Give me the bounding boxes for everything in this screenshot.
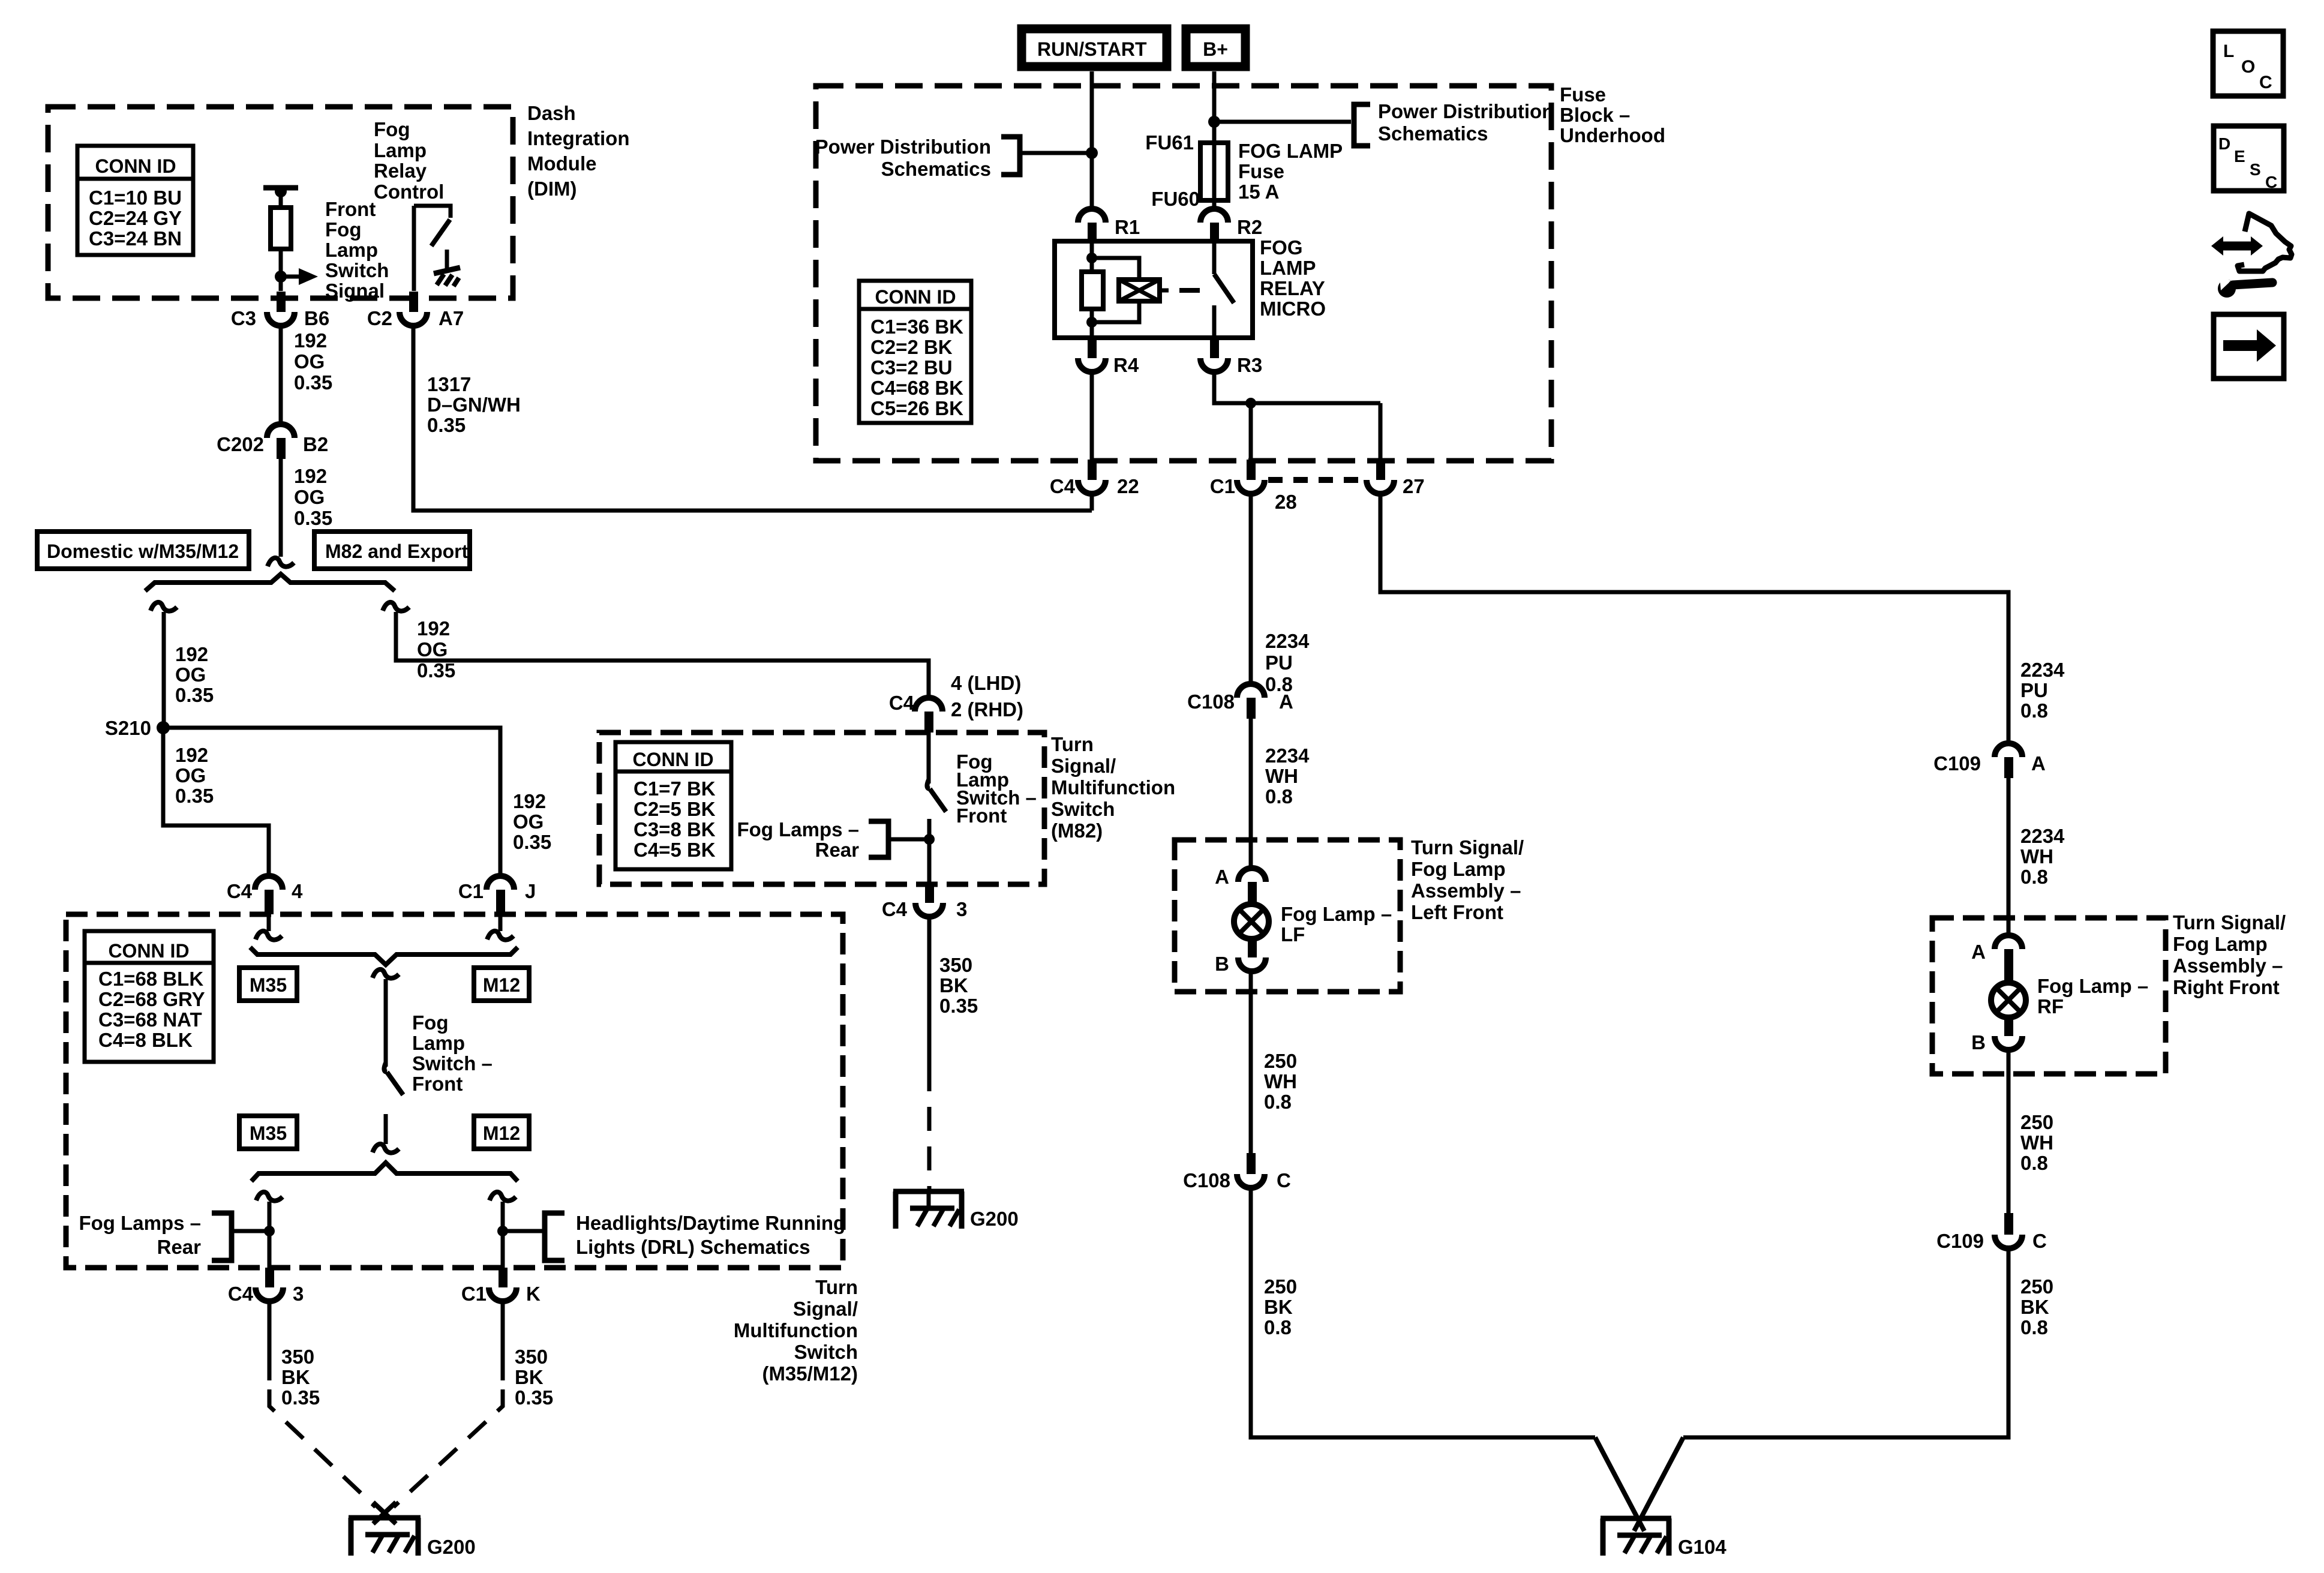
icon forward arrow [2214,314,2284,379]
svg-text:C109: C109 [1933,752,1981,775]
turn signal/multifunction switch (M35/M12) dashed box [66,914,843,1268]
connector pin A (LF lamp) [1215,866,1266,904]
wire 250 BK to G104 (right leg) [1683,1248,2008,1437]
svg-text:OG: OG [175,664,206,686]
svg-text:CONN ID: CONN ID [875,286,956,308]
svg-text:LAMP: LAMP [1260,257,1316,279]
svg-text:250: 250 [1264,1275,1297,1298]
svg-text:BK: BK [939,974,968,996]
svg-text:B+: B+ [1203,38,1228,60]
svg-text:4 (LHD): 4 (LHD) [951,672,1021,694]
fog lamp relay control switch (DIM) [414,206,451,291]
svg-text:2234: 2234 [1265,630,1310,652]
label Fog Lamp Switch - Front (M35) [412,1011,493,1095]
svg-text:Fog: Fog [374,118,410,140]
svg-text:Signal/: Signal/ [1051,755,1116,777]
svg-text:192: 192 [513,790,546,812]
wire tap to Power Distribution (left) [1022,151,1092,155]
svg-text:C3=8 BK: C3=8 BK [633,818,716,840]
connector C4 pin 4(LHD)/2(RHD) [889,672,1023,733]
svg-text:Lamp: Lamp [374,139,427,161]
svg-text:C2=24 GY: C2=24 GY [89,207,182,229]
connector C108 pin C [1183,1153,1291,1191]
connector C1 pin J (M35 input) [458,876,536,914]
wire RUN/START to R1 [1090,71,1094,209]
svg-text:Switch: Switch [794,1341,858,1363]
svg-text:A7: A7 [439,307,464,329]
label 192 OG 0.35 (below S210) [175,744,214,807]
label 192 OG 0.35 (C202) [294,465,332,529]
svg-text:M12: M12 [483,974,520,996]
svg-text:C1: C1 [461,1283,487,1305]
wire hook above distribute brace [373,1144,399,1153]
diode (boxed X) relay suppression [1119,280,1169,301]
wire end hook above option brace [268,558,294,567]
svg-text:C3=68 NAT: C3=68 NAT [98,1008,202,1031]
connector C2 pin A7 [367,292,464,329]
wire 27 loop to right side [1380,494,2008,743]
svg-text:C109: C109 [1936,1230,1984,1252]
svg-text:0.35: 0.35 [515,1386,553,1409]
svg-text:C4: C4 [227,880,253,902]
svg-text:WH: WH [2020,845,2053,867]
DIM dashed box [48,107,513,298]
turn signal/multifunction switch (M82) dashed box [599,733,1044,884]
svg-text:C3=2 BU: C3=2 BU [870,356,953,379]
svg-text:350: 350 [939,954,972,976]
svg-text:Turn: Turn [815,1276,858,1298]
wire 2234 WH to RF lamp [2007,778,2011,935]
mechanical link dash [1179,288,1200,293]
svg-text:Fog Lamps –: Fog Lamps – [737,818,859,840]
svg-text:0.35: 0.35 [175,785,214,807]
wire diagonal left into G104 [1595,1437,1644,1531]
svg-text:Power Distribution: Power Distribution [815,136,991,158]
svg-text:Front: Front [412,1073,463,1095]
wire C1-28 down to C108-A [1249,494,1253,684]
svg-text:M35: M35 [250,974,287,996]
wire diagonal right into G104 [1634,1437,1683,1531]
svg-text:0.8: 0.8 [2020,1152,2048,1174]
svg-text:0.35: 0.35 [175,684,214,706]
svg-text:C4: C4 [889,692,915,714]
wire S210 across to C1-J [163,728,500,876]
svg-text:192: 192 [294,465,327,487]
bulb Fog Lamp LF [1234,904,1269,939]
icon DESC [2214,126,2284,191]
wire 250 WH to C108-C [1249,971,1253,1153]
wire hook below distribute brace right [490,1192,516,1201]
svg-text:C1: C1 [1210,475,1235,497]
svg-text:Lights (DRL) Schematics: Lights (DRL) Schematics [576,1236,810,1258]
label Fog Lamps - Rear (M35) [79,1212,201,1258]
label Turn Signal/Multifunction Switch (M35/M12) [734,1276,858,1385]
svg-text:FU61: FU61 [1145,131,1194,154]
svg-text:C4: C4 [1050,475,1076,497]
svg-text:B: B [1971,1031,1986,1053]
option box M82 and Export [314,532,470,569]
svg-text:B2: B2 [303,433,328,455]
svg-text:15 A: 15 A [1238,181,1279,203]
svg-text:Lamp: Lamp [412,1032,465,1054]
wire diode branch [1092,258,1139,322]
svg-text:S: S [2250,160,2261,179]
label Turn Signal/Multifunction Switch (M82) [1051,733,1175,842]
bracket Fog Lamps - Rear (M35) [212,1213,269,1260]
junction dot on RUN/START feed [1086,147,1098,159]
bracket Fog Lamps - Rear (M82) [869,821,929,857]
label 192 OG 0.35 (B6) [294,329,332,394]
splice S210 [105,717,170,739]
label Headlights/Daytime Running Lights (DRL) Schematics [576,1212,845,1258]
svg-text:0.8: 0.8 [1264,1091,1292,1113]
connector C4 pin 3 (M82) [882,884,968,920]
svg-text:Lamp: Lamp [325,239,378,261]
svg-text:K: K [526,1283,541,1305]
svg-text:Switch: Switch [1051,798,1115,820]
svg-text:Multifunction: Multifunction [1051,776,1175,798]
svg-text:WH: WH [2020,1131,2053,1154]
label Turn Signal/Fog Lamp Assembly - Right Front [2173,911,2286,998]
svg-text:RUN/START: RUN/START [1037,38,1147,60]
connector pin R1 [1078,209,1140,242]
wire 192 OG from C202 [279,459,283,557]
label 2234 PU 0.8 (left) [1265,630,1310,695]
wire hook below merge brace [373,969,399,978]
wire 350 BK to G200 [927,917,932,1067]
svg-text:C2=5 BK: C2=5 BK [633,798,716,820]
svg-text:Rear: Rear [815,839,860,861]
svg-text:Signal: Signal [325,280,385,302]
connector C109 pin A [1933,743,2046,778]
svg-text:0.35: 0.35 [294,371,332,394]
svg-text:27: 27 [1403,475,1425,497]
svg-text:Block –: Block – [1560,104,1630,126]
svg-text:BK: BK [515,1366,544,1388]
arrow front fog lamp switch signal [281,268,318,285]
wire S210 down to C4-4 [163,728,269,876]
connector C4 pin 3 (M35) [228,1268,304,1305]
svg-text:C3: C3 [231,307,256,329]
label Turn Signal/Fog Lamp Assembly - Left Front [1411,836,1524,923]
turn signal/fog lamp assembly right front dashed box [1932,918,2166,1074]
svg-text:2234: 2234 [1265,745,1310,767]
svg-text:Schematics: Schematics [1378,122,1488,145]
option box Domestic w/M35/M12 [37,532,249,569]
svg-text:C1=10 BU: C1=10 BU [89,187,182,209]
svg-text:OG: OG [417,638,448,661]
wire 2234 WH to LF lamp [1249,719,1253,868]
connector C108 pin A [1187,684,1293,719]
svg-text:250: 250 [2020,1111,2053,1133]
svg-text:CONN ID: CONN ID [632,749,713,770]
svg-text:0.35: 0.35 [513,831,551,853]
CONN ID table (M35 switch) [85,931,214,1062]
svg-text:S210: S210 [105,717,151,739]
wire R4 down to C4-22 [1090,372,1094,460]
svg-text:C2: C2 [367,307,392,329]
label Fog Lamps - Rear (M82) [737,818,859,861]
svg-text:2 (RHD): 2 (RHD) [951,698,1023,721]
svg-text:C4=68 BK: C4=68 BK [870,377,963,399]
svg-text:R4: R4 [1113,354,1139,376]
wire right output to C1-K [501,1202,505,1268]
option split brace (top) [145,574,395,591]
connector pin B (LF lamp) [1215,939,1266,975]
wire hook option branch right [383,602,409,611]
svg-text:2234: 2234 [2020,659,2065,681]
bracket Power Distribution right [1354,104,1370,146]
svg-text:M82 and Export: M82 and Export [325,541,469,562]
svg-text:250: 250 [2020,1275,2053,1298]
label 2234 WH 0.8 (right) [2020,825,2065,888]
svg-text:0.35: 0.35 [281,1386,320,1409]
svg-text:LF: LF [1281,923,1305,945]
label 250 BK 0.8 (right) [2020,1275,2053,1338]
svg-text:2234: 2234 [2020,825,2065,847]
junction dot coil top [1086,253,1097,263]
svg-text:E: E [2234,147,2245,166]
svg-text:Fog: Fog [325,218,361,241]
wire hook left above merge brace [256,931,282,940]
label 350 BK 0.35 (M82) [939,954,978,1017]
connector pin 27 [1367,460,1425,497]
svg-text:Relay: Relay [374,160,427,182]
wire across down to pin 27 [1379,403,1383,460]
label Dash Integration Module (DIM) [527,102,630,200]
connector C202 pin B2 [217,424,328,459]
svg-text:BK: BK [1264,1296,1293,1318]
wire hook right above merge brace [487,931,514,940]
connector C109 pin C [1936,1213,2047,1252]
svg-text:D: D [2218,134,2230,153]
svg-text:Right Front: Right Front [2173,976,2280,998]
svg-text:Schematics: Schematics [881,158,991,180]
svg-text:C4=5 BK: C4=5 BK [633,839,716,861]
svg-text:0.8: 0.8 [2020,700,2048,722]
svg-text:RELAY: RELAY [1260,277,1325,299]
svg-text:Front: Front [956,804,1007,827]
wire 192 OG left branch to S210 [162,612,166,728]
label 192 OG 0.35 (right branch) [417,617,455,682]
svg-text:1317: 1317 [427,373,471,395]
svg-text:28: 28 [1275,491,1297,513]
svg-text:Turn: Turn [1051,733,1094,755]
junction dot rear fog tap (M35) [264,1226,275,1236]
label 350 BK 0.35 (left) [281,1346,320,1409]
junction dot DRL tap [497,1226,508,1236]
svg-text:J: J [525,880,536,902]
svg-text:A: A [1215,866,1229,888]
svg-text:192: 192 [175,643,208,665]
wire junction down to C1-28 [1249,403,1253,460]
connector pin R4 [1078,338,1139,376]
svg-text:L: L [2223,41,2234,61]
svg-text:Dash: Dash [527,102,576,124]
svg-text:PU: PU [2020,679,2048,701]
label FOG LAMP Fuse 15 A [1238,140,1343,203]
ground G200 (M82 switch) [893,1190,1019,1230]
svg-text:Headlights/Daytime Running: Headlights/Daytime Running [576,1212,845,1234]
fuse block - underhood dashed box [816,86,1551,461]
svg-text:BK: BK [2020,1296,2049,1318]
svg-text:Left Front: Left Front [1411,901,1503,923]
svg-text:3: 3 [293,1283,304,1305]
svg-text:C108: C108 [1183,1169,1230,1191]
svg-text:Assembly –: Assembly – [2173,954,2283,977]
svg-text:Fog: Fog [412,1011,448,1034]
CONN ID table (M82 switch) [615,742,731,869]
junction dot M82 rear fog tap [924,834,935,845]
svg-text:Switch –: Switch – [412,1052,493,1074]
CONN ID table (fuse block) [859,281,971,423]
svg-text:350: 350 [515,1346,548,1368]
label 250 BK 0.8 (left) [1264,1275,1297,1338]
label 1317 D-GN/WH 0.35 [427,373,521,436]
svg-text:C: C [2265,173,2277,191]
svg-text:0.8: 0.8 [2020,1316,2048,1338]
dotted harness line between 28 and 27 [1268,477,1364,483]
svg-text:OG: OG [513,810,544,833]
label Front Fog Lamp Switch Signal [325,198,389,302]
svg-text:Integration: Integration [527,127,630,149]
svg-text:Fog Lamps –: Fog Lamps – [79,1212,201,1234]
svg-text:192: 192 [294,329,327,352]
wire 192 OG right branch to M82 switch [396,612,929,698]
svg-text:0.8: 0.8 [1264,1316,1292,1338]
svg-text:C2=2 BK: C2=2 BK [870,336,953,358]
svg-text:C: C [2259,73,2272,92]
svg-text:C1=7 BK: C1=7 BK [633,778,716,800]
connector C3 pin B6 [231,292,329,329]
svg-text:Fog Lamp –: Fog Lamp – [2037,975,2148,997]
label 192 OG 0.35 (C1-J drop) [513,790,551,853]
junction dot under R3 [1245,398,1256,409]
svg-text:FOG LAMP: FOG LAMP [1238,140,1343,162]
svg-text:Control: Control [374,181,444,203]
svg-text:R2: R2 [1237,216,1262,238]
svg-text:C: C [2032,1230,2047,1252]
wire C4-3 to ground run [268,1301,272,1380]
fog lamp switch front (M82) [927,733,946,884]
svg-text:Fog Lamp: Fog Lamp [1411,858,1506,880]
connector pin A (RF lamp) [1971,935,2022,983]
svg-text:C108: C108 [1187,691,1235,713]
svg-text:BK: BK [281,1366,310,1388]
svg-text:C4: C4 [228,1283,254,1305]
svg-text:Fuse: Fuse [1238,160,1284,182]
svg-text:A: A [1279,691,1293,713]
svg-text:192: 192 [175,744,208,766]
wire 192 OG from B6 [279,326,283,425]
wire tap to Power Distribution (right) [1214,120,1351,124]
label Power Distribution Schematics (right) [1378,100,1554,145]
svg-text:Turn Signal/: Turn Signal/ [2173,911,2286,933]
node RUN/START (power feed box) [1022,29,1167,67]
svg-text:C2=68 GRY: C2=68 GRY [98,988,205,1010]
svg-text:A: A [1971,941,1986,963]
svg-text:Module: Module [527,152,596,175]
svg-text:Domestic w/M35/M12: Domestic w/M35/M12 [47,541,239,562]
svg-text:G104: G104 [1678,1536,1727,1558]
svg-text:Front: Front [325,198,376,220]
wire dashed right to G200 [394,1389,503,1507]
fog lamp switch sense resistor (DIM) [263,185,298,291]
option box M35 (lower) [239,1116,297,1149]
svg-text:C4=8 BLK: C4=8 BLK [98,1029,193,1051]
wire stubs into merge brace [269,914,500,931]
svg-text:Fog Lamp: Fog Lamp [2173,933,2268,955]
svg-text:R1: R1 [1115,216,1140,238]
ground G104 [1601,1518,1727,1558]
label Fog Lamp Switch - Front (M82) [956,751,1037,827]
bracket Power Distribution left [1001,137,1020,175]
label Fuse Block - Underhood [1560,83,1665,146]
svg-text:A: A [2031,752,2046,775]
svg-text:C1=36 BK: C1=36 BK [870,316,963,338]
fuse FU61 FOG LAMP 15A [1200,143,1228,200]
svg-text:Assembly –: Assembly – [1411,879,1521,902]
svg-text:C1=68 BLK: C1=68 BLK [98,968,203,990]
label 2234 PU 0.8 (right) [2020,659,2065,722]
svg-text:C: C [1277,1169,1291,1191]
svg-text:M12: M12 [483,1122,520,1144]
wire 250 BK to G104 (left leg) [1251,1188,1595,1437]
svg-text:(DIM): (DIM) [527,178,577,200]
junction dot on B+ feed [1208,116,1220,128]
svg-text:B6: B6 [304,307,329,329]
svg-text:M35: M35 [250,1122,287,1144]
svg-text:G200: G200 [427,1536,476,1558]
svg-text:FOG: FOG [1260,236,1303,259]
svg-text:OG: OG [294,350,325,373]
connector C1 pin 28 [1210,460,1297,513]
wire relay coil top [1090,241,1094,272]
wire dashed left to G200 [269,1389,376,1507]
svg-text:Turn Signal/: Turn Signal/ [1411,836,1524,858]
svg-text:0.35: 0.35 [939,995,978,1017]
option distribute brace (M35/M12) [251,1163,518,1181]
option box M12 (upper) [474,968,529,1001]
icon LOC [2213,31,2283,96]
label 350 BK 0.35 (right) [515,1346,553,1409]
svg-text:PU: PU [1265,652,1293,674]
svg-text:C5=26 BK: C5=26 BK [870,397,963,419]
wire R3 down and across [1214,372,1380,403]
label 2234 WH 0.8 (left) [1265,745,1310,807]
junction dot coil bottom [1086,317,1097,328]
svg-text:Multifunction: Multifunction [734,1319,858,1341]
svg-text:Power Distribution: Power Distribution [1378,100,1554,122]
turn signal/fog lamp assembly left front dashed box [1175,840,1400,992]
resistor relay coil [1082,272,1103,309]
svg-text:(M82): (M82) [1051,819,1103,842]
svg-text:3: 3 [956,898,967,920]
svg-text:192: 192 [417,617,450,640]
svg-text:0.35: 0.35 [294,507,332,529]
svg-text:OG: OG [175,764,206,786]
icon vehicle data arrow + wrench [2211,214,2292,298]
svg-text:350: 350 [281,1346,314,1368]
svg-text:Fuse: Fuse [1560,83,1606,106]
wire C4-22 drop to splice run [1090,494,1094,511]
label Fog Lamp Relay Control [374,118,444,203]
svg-text:Fog Lamp –: Fog Lamp – [1281,903,1392,925]
svg-text:Signal/: Signal/ [793,1298,858,1320]
svg-text:G200: G200 [970,1208,1019,1230]
option box M35 (upper) [239,968,297,1001]
svg-text:CONN ID: CONN ID [95,155,176,177]
